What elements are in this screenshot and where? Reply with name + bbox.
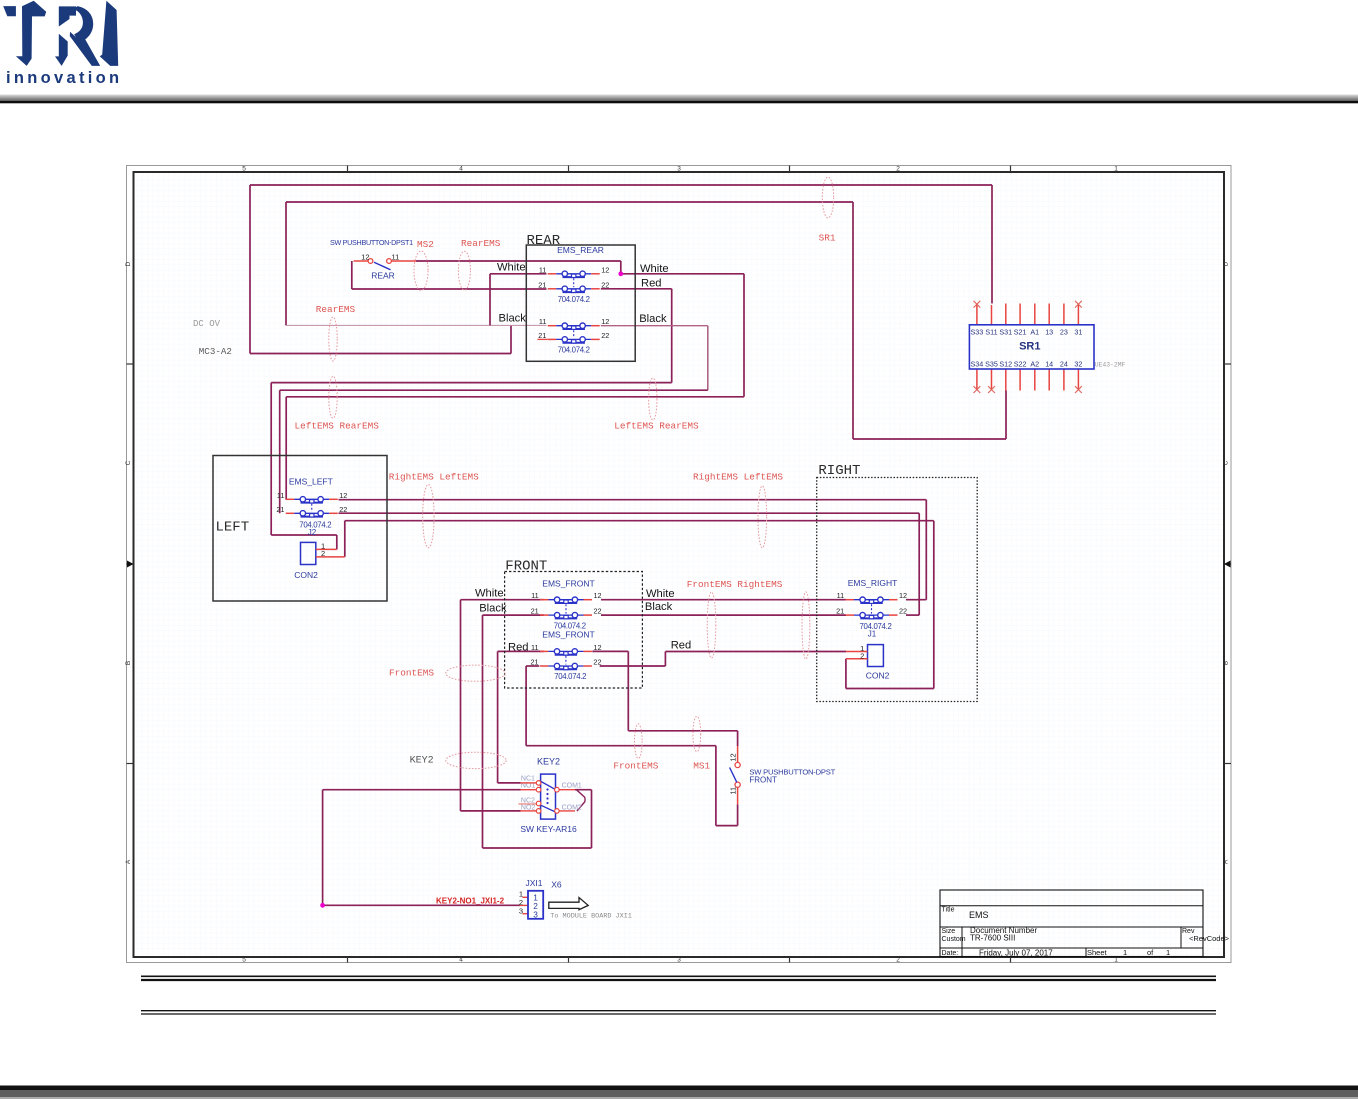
svg-text:11: 11 [392, 252, 400, 261]
svg-text:Black: Black [645, 601, 673, 613]
svg-text:22: 22 [601, 331, 609, 340]
svg-text:22: 22 [594, 607, 602, 616]
svg-text:12: 12 [361, 252, 369, 261]
svg-text:2: 2 [321, 549, 325, 558]
svg-text:A: A [125, 859, 132, 864]
svg-text:12: 12 [899, 591, 907, 600]
svg-text:3: 3 [677, 166, 681, 173]
svg-text:12: 12 [594, 591, 602, 600]
svg-text:J1: J1 [868, 629, 877, 638]
svg-text:12: 12 [601, 265, 609, 274]
svg-text:11: 11 [531, 591, 539, 600]
svg-text:COM1: COM1 [562, 783, 582, 790]
svg-text:Red: Red [671, 640, 692, 652]
svg-text:S11: S11 [985, 327, 997, 336]
svg-text:LeftEMS RearEMS: LeftEMS RearEMS [295, 420, 380, 431]
svg-text:1: 1 [1114, 166, 1118, 173]
svg-text:S33: S33 [971, 327, 984, 336]
svg-text:11: 11 [539, 317, 547, 326]
svg-text:<RevCode>: <RevCode> [1189, 934, 1230, 943]
svg-text:11: 11 [531, 643, 539, 652]
svg-text:EMS_REAR: EMS_REAR [557, 245, 604, 255]
svg-text:DC OV: DC OV [193, 319, 221, 329]
svg-text:22: 22 [899, 607, 907, 616]
svg-text:14: 14 [1045, 360, 1053, 369]
svg-text:S35: S35 [985, 360, 998, 369]
svg-text:White: White [475, 587, 504, 599]
svg-text:21: 21 [276, 505, 284, 514]
svg-text:1: 1 [1114, 957, 1118, 964]
svg-text:11: 11 [277, 491, 285, 500]
svg-text:FrontEMS RightEMS: FrontEMS RightEMS [687, 579, 783, 590]
svg-text:innovation: innovation [6, 69, 122, 87]
svg-text:2: 2 [896, 957, 900, 964]
svg-text:31: 31 [1074, 327, 1082, 336]
svg-text:Title: Title [942, 907, 955, 914]
svg-text:A1: A1 [1030, 327, 1039, 336]
svg-text:11: 11 [539, 265, 547, 274]
svg-text:LEFT: LEFT [216, 520, 250, 536]
svg-text:704.074.2: 704.074.2 [558, 295, 590, 304]
svg-text:of: of [1147, 948, 1154, 957]
svg-text:NC1: NC1 [521, 775, 535, 782]
svg-text:24: 24 [1060, 360, 1068, 369]
svg-text:RightEMS LeftEMS: RightEMS LeftEMS [389, 471, 479, 482]
svg-text:Friday, July 07, 2017: Friday, July 07, 2017 [979, 948, 1053, 957]
svg-text:13: 13 [1045, 327, 1053, 336]
svg-text:22: 22 [593, 658, 601, 667]
svg-text:SR1: SR1 [819, 232, 836, 243]
svg-text:4: 4 [459, 166, 463, 173]
svg-text:NO1: NO1 [521, 783, 536, 790]
svg-text:MC3-A2: MC3-A2 [199, 346, 232, 357]
svg-text:RIGHT: RIGHT [818, 463, 860, 479]
svg-text:EMS_RIGHT: EMS_RIGHT [848, 578, 898, 588]
svg-text:FrontEMS: FrontEMS [613, 760, 658, 771]
svg-text:S31: S31 [999, 327, 1012, 336]
svg-text:RearEMS: RearEMS [461, 238, 501, 249]
svg-text:EMS_FRONT: EMS_FRONT [542, 578, 594, 588]
svg-text:5: 5 [242, 957, 246, 964]
svg-text:12: 12 [593, 643, 601, 652]
svg-text:2: 2 [896, 166, 900, 173]
svg-text:3: 3 [519, 906, 523, 915]
svg-text:S34: S34 [971, 360, 984, 369]
svg-text:REAR: REAR [371, 270, 395, 280]
svg-text:Size: Size [942, 928, 956, 935]
svg-text:3: 3 [677, 957, 681, 964]
svg-text:S22: S22 [1014, 360, 1027, 369]
svg-text:11: 11 [728, 787, 737, 795]
svg-text:MS1: MS1 [693, 760, 710, 771]
svg-text:21: 21 [836, 607, 844, 616]
svg-text:21: 21 [538, 331, 546, 340]
svg-text:Red: Red [641, 278, 662, 290]
svg-text:White: White [646, 588, 675, 600]
svg-text:1: 1 [1123, 948, 1127, 957]
svg-text:White: White [497, 261, 526, 273]
svg-text:Black: Black [639, 313, 667, 325]
svg-text:704.074.2: 704.074.2 [554, 672, 586, 681]
svg-text:704.074.2: 704.074.2 [558, 346, 590, 355]
svg-text:KEY2: KEY2 [410, 755, 434, 766]
svg-text:4: 4 [459, 957, 463, 964]
svg-text:C: C [1223, 460, 1230, 465]
svg-text:Black: Black [479, 603, 507, 615]
svg-text:KEY2-NO1_JXI1-2: KEY2-NO1_JXI1-2 [436, 897, 505, 906]
svg-text:Black: Black [499, 312, 527, 324]
svg-text:21: 21 [530, 658, 538, 667]
svg-text:CON2: CON2 [866, 671, 890, 681]
svg-text:JXI1: JXI1 [525, 878, 542, 888]
svg-text:LeftEMS RearEMS: LeftEMS RearEMS [614, 420, 699, 431]
svg-text:12: 12 [728, 753, 737, 761]
svg-text:FrontEMS: FrontEMS [389, 667, 434, 678]
svg-text:EMS: EMS [969, 910, 989, 920]
svg-text:S21: S21 [1014, 327, 1027, 336]
svg-text:TR-7600 SIII: TR-7600 SIII [970, 933, 1015, 942]
svg-text:5: 5 [242, 166, 246, 173]
svg-text:CON2: CON2 [294, 570, 318, 580]
svg-text:EMS_FRONT: EMS_FRONT [542, 629, 594, 639]
svg-text:Date:: Date: [942, 950, 959, 957]
svg-text:J2: J2 [308, 528, 317, 537]
svg-text:B: B [125, 661, 132, 665]
svg-text:White: White [640, 263, 669, 275]
svg-text:A2: A2 [1030, 360, 1039, 369]
svg-text:RearEMS: RearEMS [316, 304, 356, 315]
svg-text:12: 12 [601, 317, 609, 326]
svg-text:Red: Red [508, 642, 529, 654]
svg-text:11: 11 [837, 591, 845, 600]
svg-text:SW PUSHBUTTON-DPST1: SW PUSHBUTTON-DPST1 [330, 238, 413, 247]
svg-text:32: 32 [1074, 360, 1082, 369]
svg-text:SR1: SR1 [1019, 340, 1040, 352]
svg-text:1: 1 [1166, 948, 1170, 957]
svg-text:21: 21 [531, 607, 539, 616]
svg-text:NC2: NC2 [521, 797, 535, 804]
svg-text:UE43-2MF: UE43-2MF [1095, 361, 1126, 368]
svg-text:22: 22 [339, 505, 347, 514]
svg-text:RightEMS LeftEMS: RightEMS LeftEMS [693, 471, 783, 482]
svg-text:REAR: REAR [527, 233, 561, 249]
svg-text:23: 23 [1060, 327, 1068, 336]
svg-text:2: 2 [860, 651, 864, 660]
svg-text:EMS_LEFT: EMS_LEFT [289, 477, 333, 487]
svg-text:22: 22 [601, 280, 609, 289]
svg-text:D: D [125, 261, 132, 266]
svg-text:B: B [1223, 661, 1230, 665]
svg-text:3: 3 [533, 909, 538, 919]
svg-text:MS2: MS2 [417, 239, 434, 250]
svg-text:C: C [125, 460, 132, 465]
svg-text:Sheet: Sheet [1087, 948, 1108, 957]
svg-text:21: 21 [538, 280, 546, 289]
svg-text:X6: X6 [551, 880, 562, 890]
svg-text:To MODULE BOARD JXI1: To MODULE BOARD JXI1 [550, 913, 632, 921]
svg-text:A: A [1223, 859, 1230, 864]
svg-text:FRONT: FRONT [749, 775, 777, 784]
svg-text:12: 12 [339, 491, 347, 500]
svg-text:Custom: Custom [942, 936, 966, 943]
svg-text:S12: S12 [999, 360, 1012, 369]
svg-text:KEY2: KEY2 [537, 757, 560, 767]
svg-text:SW KEY-AR16: SW KEY-AR16 [520, 824, 577, 834]
svg-text:FRONT: FRONT [505, 558, 547, 574]
svg-text:D: D [1223, 261, 1230, 266]
